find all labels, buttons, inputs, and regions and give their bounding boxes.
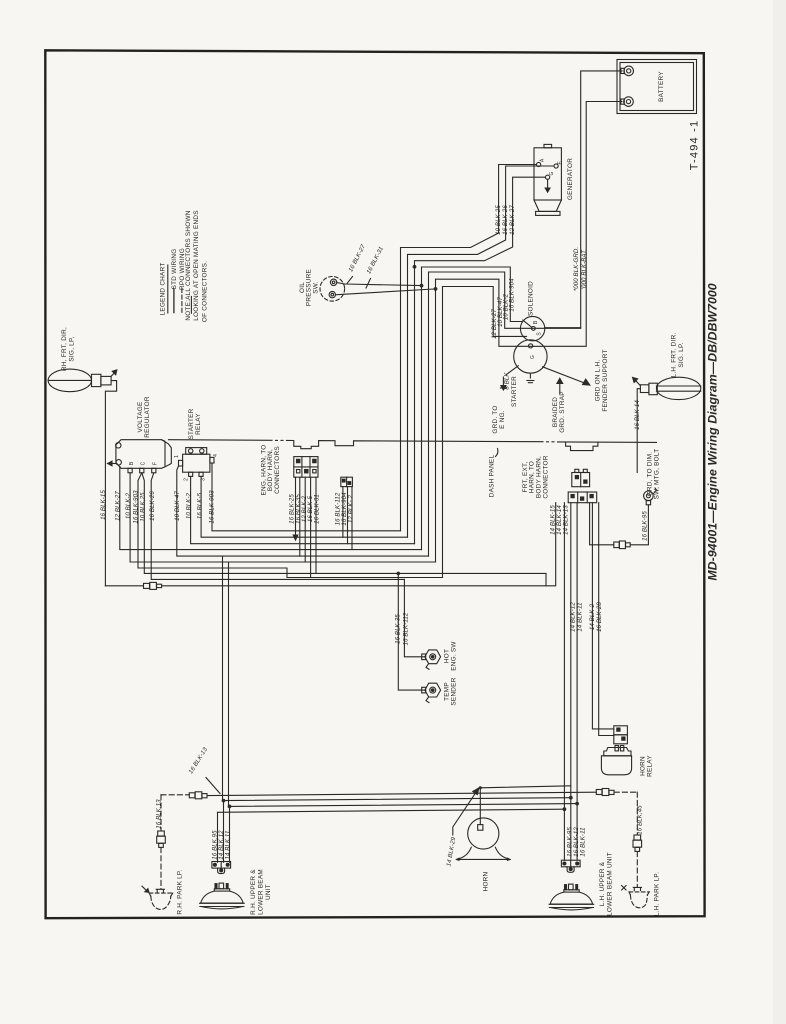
wire 16 BLK-28 vertical — [599, 503, 614, 736]
svg-text:GRD, TO DIM.: GRD, TO DIM. — [647, 452, 654, 497]
svg-text:OF CONNECTORS.: OF CONNECTORS. — [201, 261, 208, 322]
svg-text:16 BLK-904: 16 BLK-904 — [508, 278, 515, 312]
scan right edge strip — [773, 0, 786, 1024]
eng harn connector block 2 — [341, 477, 353, 486]
dash panel leader — [496, 449, 498, 457]
svg-text:SW, MTG, BOLT: SW, MTG, BOLT — [654, 449, 661, 500]
wire 14 BLK-14 vertical — [570, 503, 572, 861]
wire 10 BLK-2 to solenoid S — [429, 272, 581, 556]
svg-text:LEGEND CHART: LEGEND CHART — [160, 263, 167, 316]
wire 16 BLK-26 regulator F — [151, 473, 404, 580]
wire generator A 10 BLK-25 — [401, 165, 537, 531]
braided grd strap arrow — [557, 378, 563, 393]
svg-text:R.H. PARK LP.: R.H. PARK LP. — [177, 869, 184, 914]
wire 16 BLK-15 long run with connector — [105, 503, 555, 590]
wire 16 BLK-25 connector — [293, 477, 298, 540]
wire battery cable 000 BLK-BAT — [533, 102, 622, 347]
legend std wiring — [173, 289, 175, 313]
junction dot line2 — [569, 796, 573, 800]
junction dot RH feed 3 — [228, 805, 232, 809]
park lamp feed wire 16 BLK-13 dashed left — [157, 795, 190, 889]
svg-text:S: S — [537, 332, 543, 336]
junction dot line4 — [563, 807, 567, 811]
svg-text:16 BLK-31: 16 BLK-31 — [313, 494, 320, 524]
svg-text:12 BLK-27: 12 BLK-27 — [509, 205, 516, 235]
generator — [534, 144, 561, 215]
wire 10 BLK-47 to starter — [436, 279, 534, 562]
wire riser to bottom bundle B — [228, 562, 230, 806]
svg-text:LOOKING AT OPEN MATING ENDS: LOOKING AT OPEN MATING ENDS — [193, 210, 200, 320]
wire 14 BLK-15 vertical — [563, 503, 565, 861]
svg-text:GRD ON L.H.: GRD ON L.H. — [595, 360, 602, 402]
svg-text:14 BLK,11: 14 BLK,11 — [225, 831, 232, 860]
svg-text:10 BLK-25: 10 BLK-25 — [495, 205, 502, 235]
wire 16 BLK-112 to hot eng sw riser — [404, 579, 424, 656]
svg-text:HORN: HORN — [640, 756, 647, 776]
RH park lamp — [142, 886, 173, 909]
svg-text:16 BLK-903: 16 BLK-903 — [133, 490, 140, 524]
wire 16 BLK-31 oil switch — [335, 289, 435, 295]
junction dot horn line — [479, 786, 482, 789]
wire 16 BLK-903 regulator C — [138, 473, 443, 578]
junction dot bundle — [413, 265, 417, 269]
wire battery ground cable 000 BLK-GRD — [545, 71, 622, 328]
wire 12 BLK-2 connector2 — [351, 487, 353, 550]
svg-text:REGULATOR: REGULATOR — [144, 396, 151, 438]
wire 16 BLK-35 connector — [299, 477, 301, 556]
svg-text:GRD. TO: GRD. TO — [492, 405, 499, 433]
svg-text:SENDER: SENDER — [451, 677, 458, 705]
LH front directional signal lamp — [633, 377, 701, 399]
RH headlamp unit — [200, 883, 245, 909]
svg-text:16 BLK-15: 16 BLK-15 — [100, 490, 107, 520]
wire 10 BLK-25 regulator C — [142, 473, 546, 586]
svg-text:14 BLK-12: 14 BLK-12 — [570, 602, 577, 632]
svg-text:F: F — [153, 462, 159, 465]
svg-text:STD WIRING: STD WIRING — [171, 249, 178, 290]
svg-text:16 BLK-112: 16 BLK-112 — [402, 612, 409, 645]
svg-text:SIG. LP.: SIG. LP. — [678, 342, 685, 367]
wire 12 BLK-27 regulator — [120, 467, 422, 550]
svg-text:'000 BLK-BAT.: '000 BLK-BAT. — [581, 249, 588, 289]
wire 10 BLK-47 starter relay 1 — [177, 466, 429, 556]
svg-text:SW.: SW. — [312, 281, 319, 293]
svg-text:16 BLK-5: 16 BLK-5 — [197, 492, 204, 519]
dash panel line — [169, 440, 657, 451]
svg-text:16 BLK-26: 16 BLK-26 — [502, 205, 509, 235]
svg-text:F.: F. — [557, 161, 563, 165]
wire 12 BLK-27 to starter terminal — [443, 287, 527, 578]
inline connector on park line right — [596, 789, 641, 888]
svg-text:16 BLK-14: 16 BLK-14 — [634, 400, 641, 430]
svg-text:HOT: HOT — [444, 649, 451, 663]
solenoid — [520, 316, 544, 340]
svg-text:T-494 -1: T-494 -1 — [689, 120, 701, 171]
svg-text:MD-94001—Engine Wiring Diagram: MD-94001—Engine Wiring Diagram—DB/DBW700… — [706, 283, 720, 580]
wire 16 BLK-5 connector — [310, 477, 312, 577]
frt ext harn connector block B — [568, 492, 597, 503]
wire 16 BLK-14 — [637, 389, 640, 473]
RH headlamp connector — [212, 862, 231, 874]
svg-text:L.H. UPPER &: L.H. UPPER & — [599, 861, 606, 906]
svg-text:10 BLK-2: 10 BLK-2 — [185, 492, 192, 519]
border frame — [45, 50, 704, 918]
bullet connector 16 BLK-13 — [189, 792, 207, 799]
svg-text:L.H. PARK LP.: L.H. PARK LP. — [654, 872, 661, 916]
svg-text:16 BLK-11: 16 BLK-11 — [580, 827, 587, 856]
svg-text:*000 BLK-GRD.: *000 BLK-GRD. — [573, 247, 580, 291]
svg-text:DASH PANEL: DASH PANEL — [489, 455, 496, 498]
leader arrow 14 BLK-29 — [453, 788, 479, 835]
svg-text:16 BLK-903: 16 BLK-903 — [209, 490, 216, 524]
svg-text:16 BLK-26: 16 BLK-26 — [149, 491, 156, 521]
temp sender — [422, 683, 441, 702]
svg-text:NOTE:ALL CONNECTORS SHOWN: NOTE:ALL CONNECTORS SHOWN — [185, 210, 192, 320]
svg-text:STARTER: STARTER — [511, 376, 518, 407]
svg-text:LOWER BEAM UNIT: LOWER BEAM UNIT — [606, 852, 613, 916]
junction dot oil 16 BLK-31 — [434, 287, 438, 291]
svg-text:RELAY: RELAY — [195, 413, 202, 435]
wire 16 BLK-95 to ground bolt — [590, 503, 649, 549]
svg-text:UNIT: UNIT — [265, 884, 272, 900]
svg-text:FENDER SUPPORT: FENDER SUPPORT — [602, 349, 609, 411]
svg-text:LOWER BEAM: LOWER BEAM — [257, 869, 264, 915]
svg-text:SOLENOID: SOLENOID — [527, 281, 534, 316]
svg-text:G: G — [530, 355, 536, 359]
wire 16 BLK-15 from RH dir lamp — [105, 381, 116, 586]
junction dot RH feed 2 — [222, 799, 226, 803]
wire generator G 12 BLK-27 — [415, 177, 546, 544]
legend rpo wiring — [181, 289, 183, 313]
wire 16 BLK-31 connector — [315, 477, 317, 573]
svg-text:14 BLK-2: 14 BLK-2 — [589, 603, 596, 630]
svg-text:RH, FRT, DIR,: RH, FRT, DIR, — [61, 327, 68, 371]
svg-text:R.H. UPPER &: R.H. UPPER & — [250, 869, 257, 915]
svg-text:G: G — [549, 171, 555, 175]
svg-text:E NG.: E NG. — [499, 410, 506, 429]
svg-text:C: C — [141, 461, 147, 465]
wire 16 BLK-903 starter relay 4 — [212, 463, 401, 531]
bottom bundle line 3 — [229, 804, 578, 807]
svg-text:1: 1 — [174, 455, 180, 458]
starter relay — [179, 448, 215, 477]
wire 16 BLK-904 connector2 — [347, 487, 349, 544]
svg-text:16 BLK-35: 16 BLK-35 — [394, 614, 401, 644]
svg-text:TEMP: TEMP — [444, 682, 451, 701]
svg-text:SIG, LP,: SIG, LP, — [68, 336, 75, 361]
wire 16 BLK-5 starter relay 3 — [201, 476, 407, 537]
bottom bundle line 2 — [223, 798, 571, 801]
svg-text:4: 4 — [213, 454, 219, 457]
svg-text:12 BLK-27: 12 BLK-27 — [115, 491, 122, 521]
svg-text:16 BLK-28: 16 BLK-28 — [596, 602, 603, 632]
svg-text:ENG. SW: ENG. SW — [451, 641, 458, 671]
svg-text:RELAY: RELAY — [647, 755, 654, 777]
wire 10 BLK-2 regulator B — [130, 473, 435, 562]
svg-text:CONNECTORS: CONNECTORS — [274, 446, 281, 494]
LH headlamp unit — [549, 884, 594, 910]
battery — [617, 60, 697, 114]
voltage regulator — [108, 440, 172, 473]
svg-text:STARTER: STARTER — [188, 408, 195, 439]
svg-text:GRD. STRAP: GRD. STRAP — [559, 391, 566, 433]
svg-text:10 BLK-47: 10 BLK-47 — [174, 491, 181, 521]
grd strap diagonal to fender support — [543, 367, 590, 385]
wire 16 BLK-27 oil switch — [337, 283, 422, 286]
horn relay connector — [614, 726, 628, 744]
svg-text:16 BLK-13: 16 BLK-13 — [187, 746, 209, 775]
svg-text:8 BLK: 8 BLK — [504, 372, 511, 390]
hot engine switch — [422, 650, 441, 669]
wire 16 BLK-35 to temp sender riser — [398, 573, 424, 690]
svg-text:16 BLK-31: 16 BLK-31 — [365, 245, 385, 275]
ground under starter — [527, 373, 534, 383]
svg-text:BRAIDED: BRAIDED — [552, 397, 559, 427]
bottom bundle line 1 park lamp feed — [207, 792, 596, 795]
grd to dim sw ring terminal — [644, 488, 657, 505]
wire generator F 16 BLK-26 — [408, 166, 554, 537]
svg-text:14 BLK-11: 14 BLK-11 — [577, 602, 584, 631]
wire riser to bottom bundle A — [222, 556, 224, 801]
svg-text:12 BLK- 2: 12 BLK- 2 — [348, 494, 355, 523]
svg-text:L.H. FRT. DIR.: L.H. FRT. DIR. — [671, 333, 678, 378]
frt ext harn connector block A — [572, 469, 590, 486]
wire 16 BLK-112 connector2 — [342, 487, 344, 538]
svg-text:10 BLK,25: 10 BLK,25 — [140, 492, 147, 522]
starter — [514, 340, 547, 373]
svg-text:16 BLK-27: 16 BLK-27 — [347, 243, 367, 273]
wire 16 BLK-904 to solenoid B — [422, 267, 522, 550]
junction dot oil 16 BLK-27 — [420, 284, 424, 288]
svg-text:14 BLK-29: 14 BLK-29 — [445, 836, 457, 867]
wire 12 BLK-2 connector — [304, 477, 306, 562]
horn — [457, 818, 511, 860]
wire 14 BLK-2 vertical — [592, 503, 613, 729]
svg-text:14 BLK-13: 14 BLK-13 — [563, 505, 570, 535]
svg-text:CONNECTOR: CONNECTOR — [542, 455, 549, 498]
svg-text:VOLTAGE: VOLTAGE — [137, 402, 144, 433]
RH front directional signal lamp — [48, 369, 117, 392]
svg-text:16 BLK,45: 16 BLK,45 — [636, 805, 643, 835]
svg-text:B: B — [129, 461, 135, 465]
svg-text:A: A — [540, 158, 546, 162]
oil pressure switch — [320, 277, 345, 302]
svg-text:HORN: HORN — [483, 871, 490, 891]
horn relay — [601, 746, 631, 775]
svg-text:10 BLK-2: 10 BLK-2 — [125, 492, 132, 519]
eng harn connector block 1 — [294, 457, 318, 478]
horn feed wire 14 BLK-29 — [480, 786, 571, 825]
svg-text:B: B — [533, 320, 539, 324]
RH headlamp connector feeds — [224, 801, 230, 863]
svg-text:16 BLK-95: 16 BLK-95 — [641, 511, 648, 541]
svg-text:GENERATOR: GENERATOR — [567, 158, 574, 200]
LH headlamp connector — [561, 860, 580, 872]
junction dot line3 — [575, 802, 579, 806]
leader 16 BLK-31 — [366, 279, 371, 289]
junction dot temp riser — [397, 572, 401, 576]
wire 14 BLK-13 vertical — [576, 503, 578, 861]
wire 10 BLK-2 starter relay 2 — [191, 476, 415, 543]
svg-text:2: 2 — [184, 478, 190, 481]
bottom bundle line 4 — [218, 809, 565, 862]
LH park lamp — [622, 886, 650, 908]
leader 16 BLK-13 — [206, 778, 220, 794]
8 BLK ground lead — [500, 366, 518, 390]
svg-text:BATTERY: BATTERY — [658, 71, 665, 102]
svg-text:16 BLK,13: 16 BLK,13 — [155, 799, 162, 829]
leader 16 BLK-27 — [347, 277, 353, 284]
